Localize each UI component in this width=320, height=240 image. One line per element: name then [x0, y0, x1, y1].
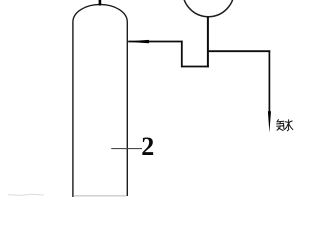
- wire: branch to ammonia water, vertical drop: [268, 50, 270, 112]
- wire: vertical pipe from tank 1: [207, 17, 209, 68]
- wire: branch to ammonia water, horizontal: [208, 50, 270, 52]
- wire: U-trap bottom run: [181, 66, 209, 68]
- vessel 2 (column with dome top): [73, 4, 127, 197]
- tank 1 (circle, cut off at top): [183, 0, 234, 17]
- vent stub on vessel top: [99, 0, 102, 6]
- svg-text:2: 2: [141, 132, 154, 161]
- arrowhead down (ammonia water outlet): [268, 111, 271, 133]
- faint scan artifact bottom-left: [8, 194, 44, 195]
- arrowhead into vessel 2: [128, 40, 149, 43]
- label 氨水 (ammonia water), hand-drawn glyphs: [277, 120, 293, 131]
- wire: feed line into vessel 2: [128, 41, 182, 43]
- vessel 2 bottom (faint line): [74, 195, 127, 197]
- glyph 水: [287, 120, 288, 131]
- glyph 氨: [277, 120, 278, 122]
- wire: U-trap riser: [181, 41, 183, 68]
- leader line for label 2: [111, 148, 142, 150]
